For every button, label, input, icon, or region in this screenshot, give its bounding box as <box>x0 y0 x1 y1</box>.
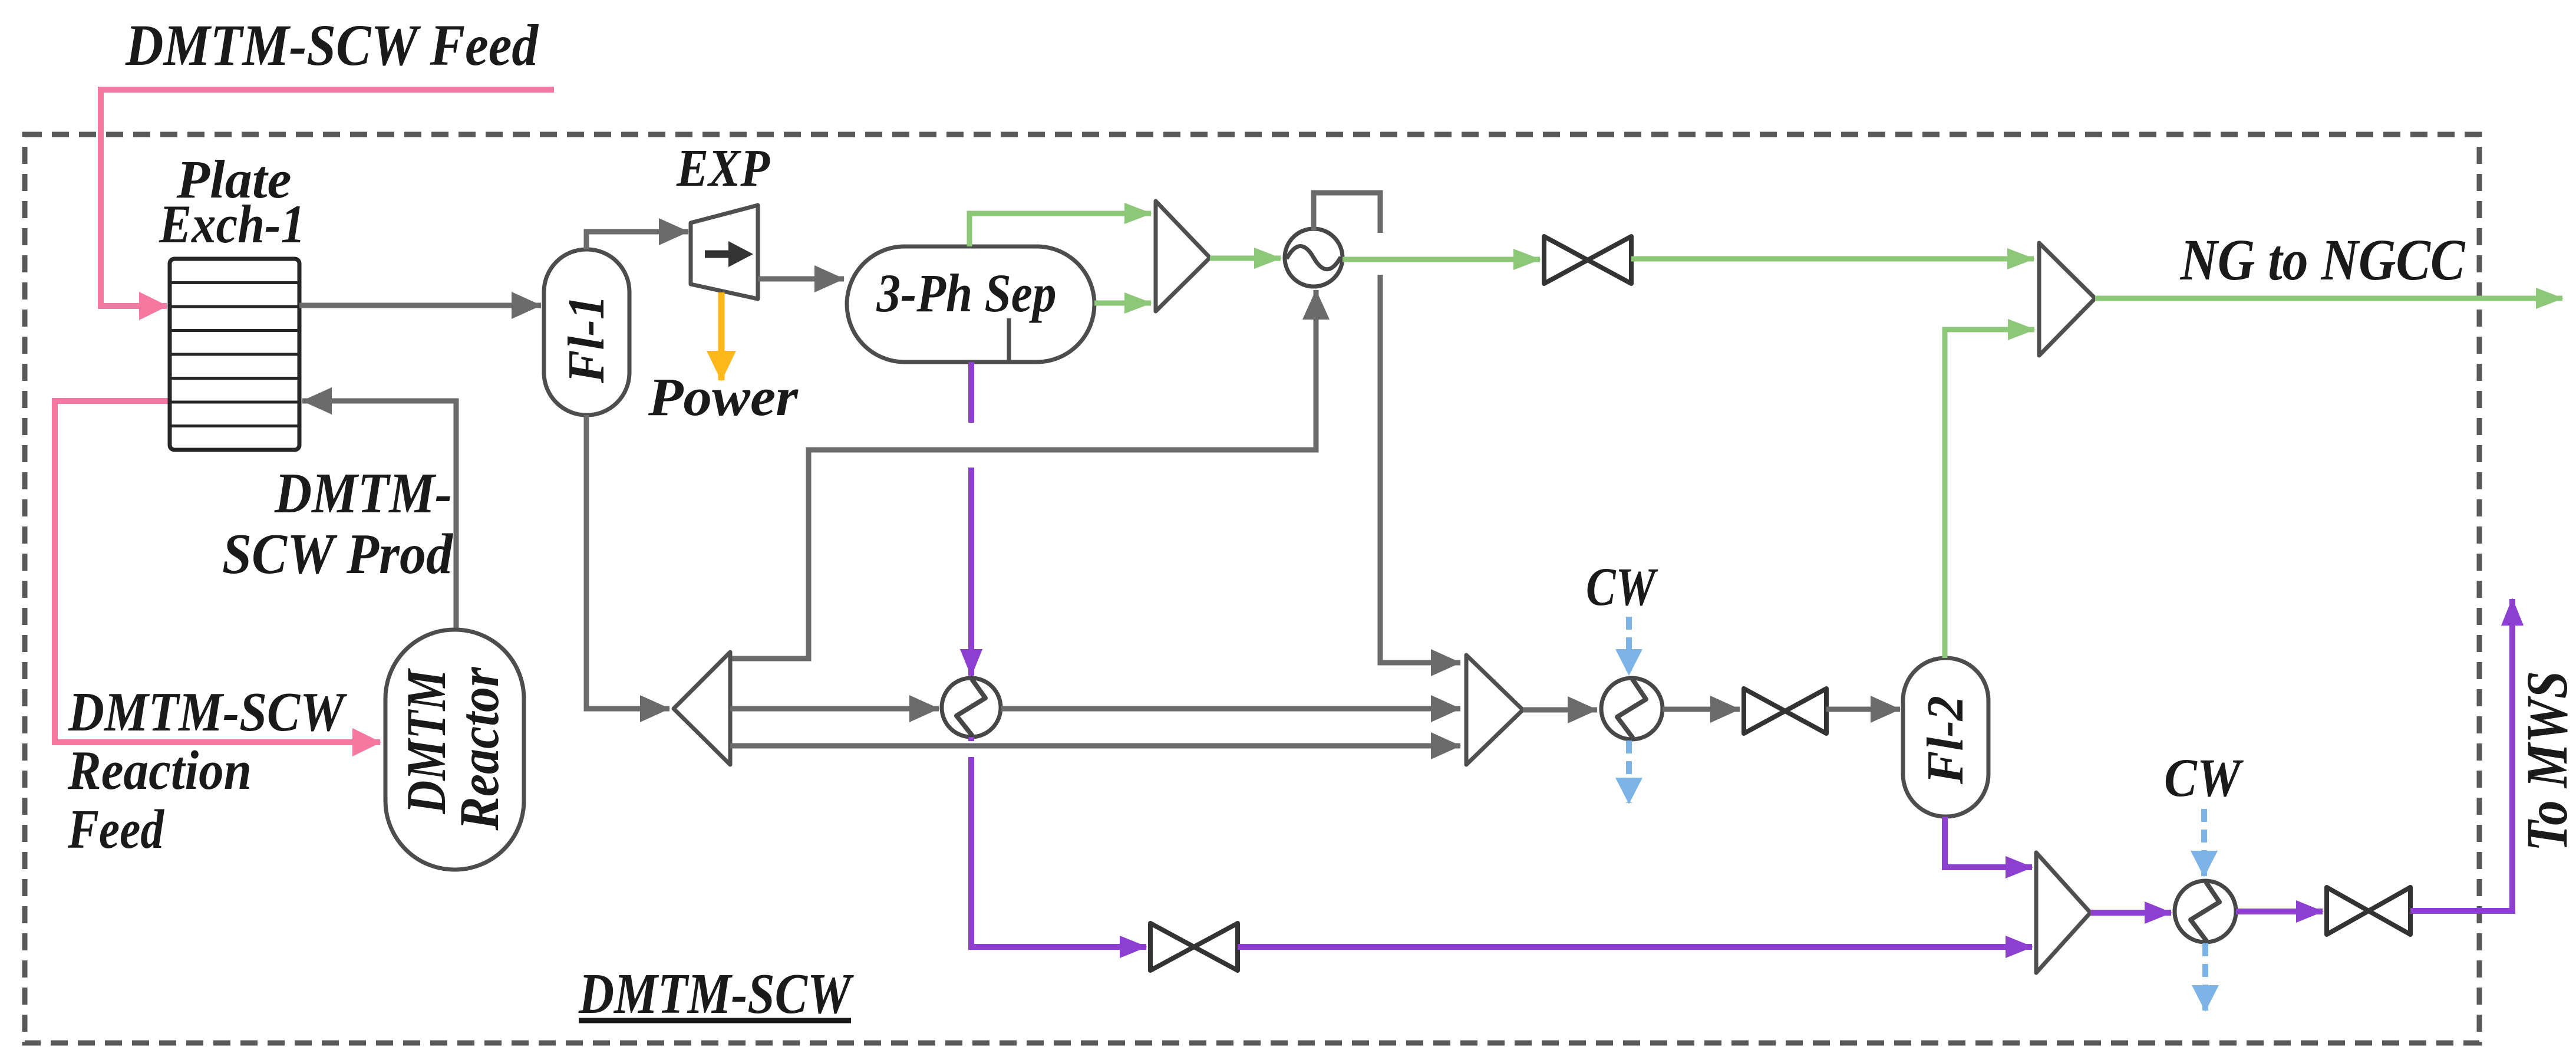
svg-text:Feed: Feed <box>67 799 165 860</box>
wire valve 4 To MWS (purple) <box>2410 599 2512 911</box>
wire valve 1 to mixer 2 (green) <box>1631 256 2034 262</box>
mixer triangle 2 <box>2039 243 2095 356</box>
svg-text:Reactor: Reactor <box>448 667 510 831</box>
svg-text:NG to NGCC: NG to NGCC <box>2180 227 2466 292</box>
cooler HX-4 <box>2175 881 2236 942</box>
svg-text:CW: CW <box>2164 748 2244 808</box>
wire plate exchanger to Fl-1 (gray) <box>299 303 541 308</box>
wire Fl-2 bottom to mixer 4 (purple) <box>1945 817 2032 867</box>
mixer triangle 4 <box>2036 853 2090 973</box>
wire mixer 3 to cooler HX-3 (gray) <box>1523 707 1597 713</box>
wire HX-4 to valve 4 (purple) <box>2236 909 2323 914</box>
svg-text:3-Ph Sep: 3-Ph Sep <box>876 263 1057 323</box>
wire Fl-2 top gas to mixer 2 (green) <box>1945 330 2034 658</box>
valve 2 (purple line) <box>1150 923 1238 970</box>
wire splitter top outlet to HX-1 bottom (gray) <box>730 290 1316 659</box>
separator 3-Ph Sep <box>847 246 1094 362</box>
mixer triangle 3 <box>1466 655 1523 765</box>
wire CW return from HX-4 (blue dashed) <box>2202 943 2208 1011</box>
svg-text:DMTM-: DMTM- <box>274 462 452 525</box>
vessel Fl-1 <box>544 249 629 415</box>
svg-text:SCW Prod: SCW Prod <box>222 522 454 586</box>
svg-text:Exch-1: Exch-1 <box>159 194 305 254</box>
splitter triangle (left pointing) <box>674 652 730 765</box>
expander internal arrow <box>705 251 728 258</box>
wire NG to NGCC (green) <box>2095 296 2562 301</box>
valve 1 (green line) <box>1544 236 1631 284</box>
wire Fl-1 bottom to splitter (gray) <box>586 415 669 709</box>
svg-text:DMTM-SCW Feed: DMTM-SCW Feed <box>125 12 539 78</box>
wire mixer 4 to cooler HX-4 (purple) <box>2090 910 2171 916</box>
wire valve 3 to Fl-2 (gray) <box>1826 707 1900 712</box>
svg-text:DMTM-SCW: DMTM-SCW <box>68 682 348 743</box>
wire 3-Ph Sep side to mixer (green) <box>1094 301 1151 306</box>
cooler HX-3 <box>1601 678 1663 739</box>
svg-text:Reaction: Reaction <box>67 740 252 801</box>
svg-text:Power: Power <box>648 367 799 427</box>
wire 3-Ph Sep top gas to mixer (green) <box>969 213 1151 246</box>
svg-text:DMTM-SCW: DMTM-SCW <box>578 962 854 1026</box>
wire valve 2 to mixer 4 (purple) <box>1238 944 2032 950</box>
wire DMTM Reactor top to plate exchanger (gray) <box>302 401 456 630</box>
heat exchanger HX-2 <box>942 678 1001 737</box>
wire EXP power (orange) <box>718 292 725 380</box>
wire CW supply to HX-4 (blue dashed) <box>2201 809 2207 876</box>
wire splitter lower outlet to mixer 3 (gray) <box>730 743 1460 749</box>
wire Fl-1 top to expander EXP (gray) <box>586 232 688 249</box>
separator internal weir line <box>1007 318 1011 361</box>
plate exchanger Plate Exch-1 <box>170 259 299 450</box>
wire HX-3 to valve 3 (gray) <box>1663 707 1740 712</box>
valve 3 (gray line) <box>1744 689 1826 733</box>
wire DMTM-SCW Feed (pink) <box>101 90 554 306</box>
svg-text:Fl-1: Fl-1 <box>558 295 615 384</box>
wire HX-2 to mixer 3 (gray) <box>1001 706 1460 712</box>
wire mixer 1 to exchanger HX-1 (green) <box>1210 256 1281 261</box>
wire EXP outlet to 3-Ph Sep (gray) <box>758 277 844 282</box>
svg-text:Fl-2: Fl-2 <box>1917 696 1974 785</box>
reactor DMTM Reactor <box>385 630 524 870</box>
svg-text:To MWS: To MWS <box>2514 671 2576 851</box>
wire splitter middle outlet to HX-2 (gray) <box>730 706 939 712</box>
valve 4 (purple line) <box>2327 887 2410 934</box>
svg-text:CW: CW <box>1586 557 1658 617</box>
wire CW return from HX-3 (blue dashed) <box>1626 741 1632 803</box>
wire DMTM-SCW Reaction Feed (pink) <box>55 401 380 742</box>
wire HX-1 to valve 1 (green) <box>1343 257 1540 262</box>
mixer triangle 1 <box>1156 201 1210 311</box>
heat exchanger HX-1 <box>1285 229 1343 287</box>
wire HX-2 bottom purple to valve 2 <box>971 737 1146 947</box>
vessel Fl-2 <box>1903 658 1988 817</box>
wire 3-Ph Sep bottom water (purple) <box>968 362 974 676</box>
wire HX-1 hot side bridge (gray) <box>1314 193 1460 663</box>
wire CW supply to HX-3 (blue dashed) <box>1626 617 1632 674</box>
expander EXP <box>691 205 758 299</box>
svg-text:EXP: EXP <box>676 139 770 198</box>
